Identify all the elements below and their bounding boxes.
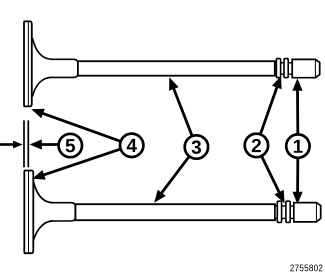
valve V1 tip block <box>292 59 320 77</box>
face plane line A <box>23 120 25 167</box>
valve V1 head bar <box>24 21 32 106</box>
valve V2 tip chamfer line <box>315 203 317 222</box>
valve V1 head face inner line <box>27 22 29 107</box>
valve V1 tip chamfer line <box>314 60 316 78</box>
valve V1 groove base <box>275 63 292 74</box>
valve V1 keeper ring 2 <box>284 59 288 78</box>
arrow from callout 4 to valve V1 head corner <box>31 109 120 142</box>
valve V2 tip block <box>294 203 321 222</box>
arrow from callout 3 to valve V2 stem <box>154 157 189 203</box>
arrow from callout 3 to valve V1 stem <box>169 77 192 135</box>
arrow from callout 2 to valve V2 grooves <box>262 156 285 203</box>
arrow from margin at left edge <box>0 141 23 149</box>
valve V2 keeper ring 2 <box>286 201 290 222</box>
valve V1 keeper ring 1 <box>276 59 280 78</box>
callout 5 circle <box>59 134 82 157</box>
valve V2 groove base <box>275 206 294 218</box>
callout 1 circle <box>286 134 309 157</box>
callout 4 circle <box>120 134 143 157</box>
valve V1 fillet bottom <box>32 77 52 96</box>
valve V2 fillet bottom <box>33 221 53 241</box>
arrow from callout 1 to valve V2 tip <box>293 158 303 204</box>
callout 3 circle <box>185 135 208 158</box>
arrow from callout 4 to valve V2 head corner <box>32 149 120 179</box>
valve V1 stem <box>78 61 275 75</box>
valve V1 neck <box>52 59 78 77</box>
valve V2 head face inner line <box>28 171 30 253</box>
face plane line B <box>27 120 29 167</box>
valve V1 fillet top <box>32 38 52 59</box>
valve V2 neck <box>50 203 75 221</box>
valve V2 head bar <box>24 171 33 254</box>
valve V2 fillet top <box>33 181 53 203</box>
arrow from callout 1 to valve V1 tip <box>292 78 302 134</box>
arrow from callout 2 to valve V1 grooves <box>261 76 282 134</box>
arrow from callout 5 to face plane <box>30 139 59 149</box>
figure number 2755802 <box>290 265 322 272</box>
callout 2 circle <box>245 134 268 157</box>
valve V2 stem <box>75 204 275 220</box>
valve V2 keeper ring 1 <box>277 201 281 222</box>
